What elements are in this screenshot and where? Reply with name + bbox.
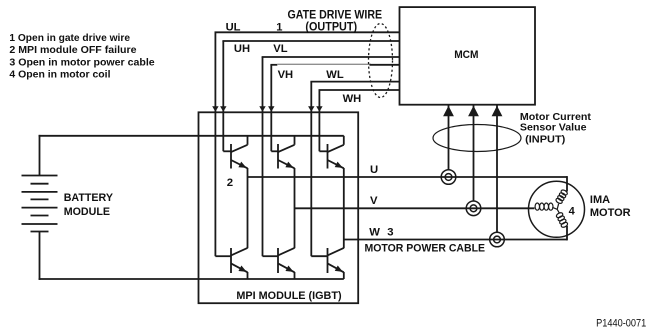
svg-text:(OUTPUT): (OUTPUT) bbox=[305, 22, 357, 34]
svg-text:1 Open in gate drive wire: 1 Open in gate drive wire bbox=[9, 33, 130, 44]
svg-text:3: 3 bbox=[387, 227, 393, 239]
svg-text:P1440-0071: P1440-0071 bbox=[596, 318, 646, 330]
svg-text:Sensor Value: Sensor Value bbox=[520, 122, 587, 133]
svg-text:3 Open in motor power cable: 3 Open in motor power cable bbox=[9, 57, 155, 68]
svg-text:4 Open in motor coil: 4 Open in motor coil bbox=[9, 69, 110, 80]
svg-text:Motor Current: Motor Current bbox=[520, 112, 592, 123]
svg-text:4: 4 bbox=[569, 205, 576, 217]
svg-text:WL: WL bbox=[326, 69, 344, 81]
svg-text:U: U bbox=[370, 164, 378, 176]
svg-text:VL: VL bbox=[273, 43, 287, 55]
svg-text:W: W bbox=[369, 227, 380, 239]
svg-text:2: 2 bbox=[227, 177, 233, 189]
svg-text:UL: UL bbox=[226, 22, 241, 34]
svg-text:MOTOR: MOTOR bbox=[590, 207, 631, 219]
svg-text:(INPUT): (INPUT) bbox=[525, 134, 565, 145]
svg-text:V: V bbox=[370, 195, 378, 207]
svg-text:MCM: MCM bbox=[454, 49, 478, 61]
svg-text:MODULE: MODULE bbox=[64, 206, 110, 218]
svg-text:MOTOR POWER CABLE: MOTOR POWER CABLE bbox=[365, 242, 486, 254]
svg-text:GATE DRIVE WIRE: GATE DRIVE WIRE bbox=[288, 10, 383, 22]
svg-text:IMA: IMA bbox=[590, 194, 610, 206]
svg-text:UH: UH bbox=[234, 43, 250, 55]
svg-text:MPI MODULE (IGBT): MPI MODULE (IGBT) bbox=[236, 290, 341, 302]
svg-text:1: 1 bbox=[276, 22, 282, 34]
svg-text:VH: VH bbox=[278, 69, 294, 81]
svg-text:2 MPI module OFF failure: 2 MPI module OFF failure bbox=[9, 45, 136, 56]
svg-text:BATTERY: BATTERY bbox=[64, 192, 113, 204]
svg-text:WH: WH bbox=[343, 93, 362, 105]
